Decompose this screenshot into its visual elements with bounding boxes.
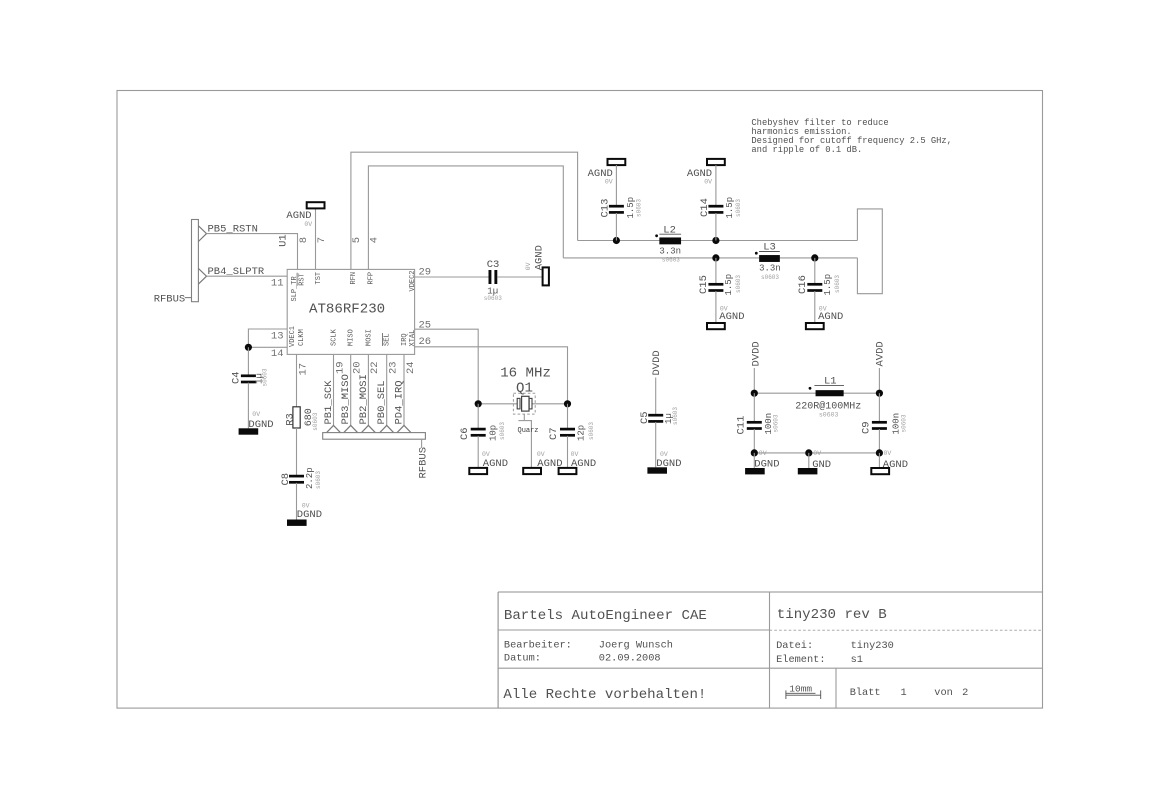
svg-text:IRQ: IRQ bbox=[401, 333, 409, 346]
svg-text:s0603: s0603 bbox=[262, 368, 269, 386]
svg-text:AGND: AGND bbox=[534, 245, 546, 270]
svg-text:s0603: s0603 bbox=[315, 471, 322, 489]
wire PB5_RSTN to pin 8 bbox=[207, 234, 298, 270]
label C13 bbox=[600, 199, 612, 218]
title Alle Rechte vorbehalten! bbox=[503, 687, 706, 703]
junction AVDD node bbox=[876, 390, 883, 397]
label AGND at C13 bbox=[588, 168, 613, 180]
label AGND at C16 bbox=[818, 311, 843, 323]
svg-text:7: 7 bbox=[316, 237, 328, 243]
label C16 bbox=[797, 275, 809, 294]
pin number 4 bbox=[369, 237, 381, 243]
svg-text:Joerg Wunsch: Joerg Wunsch bbox=[599, 639, 673, 651]
net RFBUS label left bbox=[154, 294, 192, 306]
svg-text:CLKM: CLKM bbox=[298, 329, 306, 346]
label C6 bbox=[459, 427, 471, 440]
ground DGND at C8 bbox=[287, 520, 307, 526]
pin number 20 bbox=[352, 361, 364, 374]
wire AGND to C13 bbox=[615, 165, 617, 206]
value C3 1u bbox=[487, 287, 498, 297]
svg-text:PD4_IRQ: PD4_IRQ bbox=[394, 380, 406, 424]
value C6 10p bbox=[489, 425, 499, 441]
wire C16 to AGND bbox=[814, 291, 816, 323]
value C16 1.5p bbox=[823, 274, 833, 296]
svg-text:Datum:: Datum: bbox=[504, 653, 541, 665]
wire pin 22 to bus bbox=[367, 354, 369, 425]
label 0V at GND node bbox=[813, 450, 821, 457]
svg-text:SLP_TR: SLP_TR bbox=[291, 275, 299, 301]
wire pin 25 to crystal left bbox=[415, 329, 479, 404]
svg-text:DGND: DGND bbox=[297, 509, 322, 521]
svg-text:0V: 0V bbox=[759, 450, 767, 457]
svg-text:RST: RST bbox=[298, 273, 306, 286]
svg-text:PB1_SCK: PB1_SCK bbox=[323, 380, 335, 425]
svg-text:20: 20 bbox=[352, 361, 364, 374]
svg-text:0V: 0V bbox=[884, 450, 892, 457]
svg-text:25: 25 bbox=[419, 320, 432, 332]
svg-text:s0603: s0603 bbox=[636, 199, 643, 217]
field Datei bbox=[776, 640, 894, 652]
bus entry triangle PD4_IRQ bbox=[397, 425, 411, 432]
wire AGND to C14 bbox=[715, 165, 717, 206]
value C8 2.2p bbox=[305, 467, 315, 489]
field Blatt bbox=[850, 687, 969, 699]
field Element bbox=[776, 654, 863, 666]
svg-text:12p: 12p bbox=[577, 425, 587, 441]
svg-text:C7: C7 bbox=[548, 427, 560, 440]
svg-text:SEL: SEL bbox=[384, 333, 392, 346]
svg-text:Alle Rechte vorbehalten!: Alle Rechte vorbehalten! bbox=[503, 687, 706, 703]
label C4 bbox=[231, 371, 243, 384]
wire C13 to row 1 bbox=[615, 213, 617, 241]
label 0V at C3 bbox=[525, 262, 532, 270]
label 0V at crystal gnd bbox=[537, 451, 545, 458]
note Chebyshev filter annotation bbox=[751, 118, 952, 155]
wire RFP pin 4 to filter row 2 bbox=[368, 166, 563, 270]
node PB5_RSTN label bbox=[208, 224, 258, 236]
pin label MISO bbox=[348, 329, 356, 346]
resistor R3 bbox=[293, 407, 300, 428]
svg-text:14: 14 bbox=[271, 348, 284, 360]
pin number 19 bbox=[334, 361, 346, 374]
svg-text:AT86RF230: AT86RF230 bbox=[309, 302, 385, 318]
junction GND node bbox=[805, 449, 812, 456]
package L1 s0603 bbox=[819, 411, 839, 418]
pin number 14 bbox=[271, 348, 284, 360]
svg-text:AVDD: AVDD bbox=[875, 341, 887, 366]
label C8 bbox=[280, 473, 292, 486]
svg-text:RFN: RFN bbox=[350, 272, 358, 285]
power DVDD at C11 bbox=[750, 341, 762, 366]
label 0V at C16 bbox=[819, 306, 827, 313]
svg-text:C5: C5 bbox=[639, 411, 651, 424]
node PB4_SLPTR label bbox=[208, 266, 265, 278]
package L2 s0603 bbox=[662, 257, 680, 264]
pin label RST bbox=[297, 273, 306, 286]
pin label MOSI bbox=[365, 329, 373, 346]
package C15 s0603 bbox=[735, 275, 742, 293]
svg-text:PB2_MOSI: PB2_MOSI bbox=[358, 374, 370, 424]
svg-text:s1: s1 bbox=[851, 654, 863, 666]
svg-text:s0603: s0603 bbox=[773, 414, 780, 432]
pin number 25 bbox=[419, 320, 432, 332]
wire C4 to DGND bbox=[247, 383, 249, 429]
svg-text:C4: C4 bbox=[231, 371, 243, 384]
capacitor C4 bbox=[241, 374, 256, 383]
svg-text:s0603: s0603 bbox=[834, 275, 841, 293]
svg-text:PB3_MISO: PB3_MISO bbox=[340, 374, 352, 424]
wire AVDD to L1 node bbox=[878, 368, 880, 393]
svg-text:1.5p: 1.5p bbox=[823, 274, 833, 296]
svg-text:Element:: Element: bbox=[776, 654, 825, 666]
label AGND at C7 bbox=[571, 458, 596, 470]
sheet border frame bbox=[117, 91, 1043, 709]
svg-text:s0603: s0603 bbox=[761, 274, 779, 281]
svg-text:C8: C8 bbox=[280, 473, 292, 486]
label 0V at C13 bbox=[605, 178, 613, 185]
label AGND at C6 bbox=[483, 458, 508, 470]
ground AGND above C14 bbox=[707, 159, 725, 165]
capacitor C13 bbox=[609, 205, 624, 214]
label 0V at C15 bbox=[720, 306, 728, 313]
wire R3 to C8 bbox=[296, 428, 298, 476]
svg-text:2.2p: 2.2p bbox=[305, 467, 315, 489]
label AGND at C14 bbox=[687, 168, 712, 180]
label DGND at C5 bbox=[656, 458, 681, 470]
svg-text:C14: C14 bbox=[699, 198, 711, 217]
title block frame bbox=[498, 592, 1042, 708]
pin number 17 bbox=[297, 363, 309, 376]
package R3 s0603 bbox=[312, 412, 319, 430]
package C16 s0603 bbox=[834, 275, 841, 293]
field Bearbeiter bbox=[504, 639, 673, 651]
svg-text:Bearbeiter:: Bearbeiter: bbox=[504, 639, 572, 651]
label 0V at C6 bbox=[482, 451, 490, 458]
label 0V at C5 bbox=[660, 451, 668, 458]
label Q1 bbox=[516, 380, 533, 396]
svg-text:0V: 0V bbox=[525, 262, 532, 270]
svg-text:3.3n: 3.3n bbox=[759, 264, 781, 274]
pin label XTAL bbox=[409, 330, 417, 347]
wire row 2 to C15 bbox=[715, 258, 717, 284]
net RFBUS label bottom bbox=[417, 447, 429, 479]
pin label IRQ bbox=[401, 333, 409, 346]
label 16 MHz bbox=[500, 366, 551, 382]
label C15 bbox=[698, 275, 710, 294]
junction node C4 bbox=[245, 344, 252, 351]
label 0V top bbox=[304, 221, 312, 228]
svg-text:DVDD: DVDD bbox=[750, 341, 762, 366]
svg-text:Datei:: Datei: bbox=[776, 640, 813, 652]
wire pin 7 to AGND bbox=[315, 209, 317, 270]
value C7 12p bbox=[577, 425, 587, 441]
label AGND at crystal gnd bbox=[537, 458, 562, 470]
wire PB4_SLPTR to pin 11 bbox=[207, 275, 288, 277]
svg-text:SCLK: SCLK bbox=[331, 328, 339, 346]
label C3 bbox=[487, 259, 500, 271]
svg-text:MOSI: MOSI bbox=[365, 329, 373, 346]
wire C9 to gnd row bbox=[878, 429, 880, 453]
wire pin 19 to bus bbox=[333, 354, 335, 425]
svg-text:10p: 10p bbox=[489, 425, 499, 441]
value C14 1.5p bbox=[725, 197, 735, 219]
svg-text:8: 8 bbox=[298, 237, 310, 243]
capacitor C3 bbox=[489, 270, 498, 284]
label C14 bbox=[699, 198, 711, 217]
value L2 3.3n bbox=[659, 247, 681, 257]
pin number 22 bbox=[369, 361, 381, 374]
wire pin 17 to R3 bbox=[296, 354, 298, 406]
wire GND stub bbox=[808, 453, 810, 468]
label DGND at L1 row bbox=[754, 458, 779, 470]
svg-text:0V: 0V bbox=[252, 411, 260, 418]
ground AGND at crystal bbox=[523, 468, 541, 474]
value C15 1.5p bbox=[724, 274, 734, 296]
svg-text:Quarz: Quarz bbox=[518, 427, 539, 435]
svg-text:s0603: s0603 bbox=[672, 407, 679, 425]
svg-text:0V: 0V bbox=[704, 178, 712, 185]
ground AGND at C16 bbox=[806, 323, 824, 329]
svg-text:R3: R3 bbox=[285, 413, 297, 426]
svg-text:MISO: MISO bbox=[348, 329, 356, 346]
pin label RFP bbox=[368, 272, 376, 285]
svg-text:tiny230 rev B: tiny230 rev B bbox=[777, 607, 887, 623]
power DVDD at C5 bbox=[651, 350, 663, 375]
svg-text:0V: 0V bbox=[304, 221, 312, 228]
wire L1 row bbox=[754, 392, 879, 394]
junction crystal left node bbox=[475, 400, 482, 407]
capacitor C16 bbox=[807, 283, 822, 292]
svg-text:s0603: s0603 bbox=[735, 275, 742, 293]
svg-text:PB0_SEL: PB0_SEL bbox=[376, 380, 388, 424]
svg-text:XTAL: XTAL bbox=[409, 330, 417, 347]
label DGND at C8 bbox=[297, 509, 322, 521]
value C11 100n bbox=[764, 413, 774, 435]
ground DGND bar at L1 row bbox=[745, 468, 765, 474]
capacitor C14 bbox=[708, 205, 723, 214]
capacitor C9 bbox=[872, 421, 887, 430]
label AGND at L1 row bbox=[883, 459, 908, 471]
package C5 s0603 bbox=[672, 407, 679, 425]
svg-text:1.5p: 1.5p bbox=[725, 197, 735, 219]
pin label CLKM bbox=[298, 329, 306, 346]
svg-text:VDEC2: VDEC2 bbox=[409, 270, 417, 291]
svg-text:19: 19 bbox=[334, 361, 346, 374]
pin label SLP_TR bbox=[291, 275, 299, 301]
wire node to C9 bbox=[878, 393, 880, 422]
ground AGND at C15 bbox=[707, 323, 725, 329]
ground GND bar at L1 row bbox=[798, 468, 818, 474]
wire node to C6 bbox=[477, 404, 479, 429]
pin label RFN bbox=[350, 272, 358, 285]
wire C8 to DGND bbox=[296, 483, 298, 520]
label GND at L1 row bbox=[812, 459, 831, 471]
capacitor C15 bbox=[708, 283, 723, 292]
ground AGND above C13 bbox=[608, 159, 626, 165]
inductor L2 bbox=[655, 234, 681, 244]
bus entry triangle PB5_RSTN bbox=[198, 226, 206, 242]
wire C3 to AGND bbox=[497, 276, 542, 278]
label AGND at C15 bbox=[719, 311, 744, 323]
package C3 s0603 bbox=[484, 295, 502, 302]
svg-text:0V: 0V bbox=[813, 450, 821, 457]
svg-text:C13: C13 bbox=[600, 199, 612, 218]
label 0V at C8 bbox=[302, 502, 310, 509]
value L3 3.3n bbox=[759, 264, 781, 274]
ground AGND top (pin 7) bbox=[307, 202, 325, 208]
package L3 s0603 bbox=[761, 274, 779, 281]
capacitor C8 bbox=[289, 475, 304, 484]
svg-text:11: 11 bbox=[271, 278, 284, 290]
wire RFN pin 5 to filter row 1 bbox=[351, 152, 578, 269]
capacitor C11 bbox=[747, 421, 762, 430]
wire pin 20 to bus bbox=[350, 354, 352, 425]
svg-text:Q1: Q1 bbox=[516, 380, 533, 396]
label Quarz bbox=[518, 427, 539, 435]
svg-text:DVDD: DVDD bbox=[651, 350, 663, 375]
ground AGND at C7 bbox=[559, 468, 577, 474]
svg-text:and ripple of 0.1 dB.: and ripple of 0.1 dB. bbox=[751, 145, 862, 155]
svg-text:s0603: s0603 bbox=[484, 295, 502, 302]
label 0V at C7 bbox=[571, 451, 579, 458]
svg-text:AGND: AGND bbox=[719, 311, 744, 323]
svg-text:16 MHz: 16 MHz bbox=[500, 366, 551, 382]
connector RFBUS bus bar bbox=[192, 220, 199, 302]
pin number 24 bbox=[405, 361, 417, 374]
wire pin 24 to bus bbox=[403, 354, 405, 425]
ground AGND right of C3 bbox=[543, 267, 549, 285]
capacitor C7 bbox=[560, 428, 575, 437]
label C7 bbox=[548, 427, 560, 440]
bus entry triangle PB1_SCK bbox=[327, 425, 341, 432]
label R3 bbox=[285, 413, 297, 426]
label L2 bbox=[659, 225, 681, 237]
net label PB2_MOSI bbox=[358, 374, 370, 424]
ground DGND at C5 bbox=[647, 467, 667, 473]
svg-text:02.09.2008: 02.09.2008 bbox=[599, 653, 661, 665]
net label PB3_MISO bbox=[340, 374, 352, 424]
wire C15 to AGND bbox=[715, 291, 717, 323]
svg-text:C15: C15 bbox=[698, 275, 710, 294]
power AVDD at C9 bbox=[875, 341, 887, 366]
bus entry triangle PB4_SLPTR bbox=[198, 268, 206, 284]
svg-text:24: 24 bbox=[405, 361, 417, 374]
wire DVDD to L1 node bbox=[753, 368, 755, 393]
pin label VDEC2 bbox=[409, 270, 417, 291]
svg-text:s0603: s0603 bbox=[735, 199, 742, 217]
ground AGND bar at L1 row bbox=[871, 468, 889, 474]
svg-text:1.5p: 1.5p bbox=[724, 274, 734, 296]
bus bar RFBUS bottom bbox=[323, 433, 426, 440]
svg-text:5: 5 bbox=[351, 237, 363, 243]
op-amp U1 AT86RF230 body bbox=[287, 269, 414, 354]
junction AGND node bbox=[876, 449, 883, 456]
svg-text:s0603: s0603 bbox=[819, 411, 839, 418]
wire C5 to DGND bbox=[655, 422, 657, 467]
svg-text:C3: C3 bbox=[487, 259, 500, 271]
svg-text:29: 29 bbox=[419, 267, 432, 279]
svg-text:26: 26 bbox=[419, 336, 432, 348]
wire C14 to row 1 bbox=[715, 213, 717, 241]
junction DVDD node bbox=[751, 390, 758, 397]
junction C13 node bbox=[613, 237, 620, 244]
wire DVDD to C5 bbox=[655, 378, 657, 415]
ic U1 designator bbox=[277, 234, 289, 247]
scale mark 10mm bbox=[786, 684, 821, 699]
wire pin 13 bbox=[248, 329, 287, 347]
label DGND at C4 bbox=[248, 419, 273, 431]
wire crystal case to ground bbox=[518, 414, 532, 468]
svg-text:tiny230: tiny230 bbox=[851, 640, 894, 652]
value C4 1u bbox=[255, 373, 265, 384]
net label PD4_IRQ bbox=[394, 380, 406, 424]
svg-text:VDEC1: VDEC1 bbox=[289, 326, 297, 347]
wire ground row bbox=[754, 452, 879, 454]
svg-text:0V: 0V bbox=[537, 451, 545, 458]
package C6 s0603 bbox=[499, 422, 506, 440]
svg-text:Bartels AutoEngineer CAE: Bartels AutoEngineer CAE bbox=[504, 608, 707, 624]
value C13 1.5p bbox=[626, 197, 636, 219]
wire to C4 bbox=[247, 347, 249, 375]
svg-text:s0603: s0603 bbox=[499, 422, 506, 440]
package C8 s0603 bbox=[315, 471, 322, 489]
junction C15 node bbox=[712, 254, 719, 261]
wire RFBUS stub bbox=[421, 439, 423, 448]
title Bartels AutoEngineer CAE bbox=[504, 608, 707, 624]
svg-text:von: von bbox=[934, 687, 953, 699]
value C9 100n bbox=[892, 413, 902, 435]
value C5 1u bbox=[664, 413, 674, 424]
label 0V at C14 bbox=[704, 178, 712, 185]
svg-text:2: 2 bbox=[962, 687, 968, 699]
svg-text:RFP: RFP bbox=[368, 272, 376, 285]
pin label VDEC1 bbox=[289, 326, 297, 347]
svg-text:0V: 0V bbox=[605, 178, 613, 185]
bus entry triangle PB2_MOSI bbox=[362, 425, 376, 432]
crystal Q1 bbox=[513, 393, 535, 414]
wire C11 to gnd row bbox=[753, 429, 755, 453]
svg-text:RFBUS: RFBUS bbox=[417, 447, 429, 479]
pin label SEL bbox=[383, 333, 392, 346]
svg-text:C9: C9 bbox=[861, 421, 873, 434]
wire pin 14 bbox=[248, 346, 287, 348]
value R3 680 bbox=[304, 408, 315, 426]
svg-text:s0603: s0603 bbox=[312, 412, 319, 430]
svg-text:U1: U1 bbox=[277, 234, 289, 247]
pin number 5 bbox=[351, 237, 363, 243]
bus entry triangle PB0_SEL bbox=[380, 425, 394, 432]
pin number 8 bbox=[298, 237, 310, 243]
wire pin 29 to C3 bbox=[415, 276, 489, 278]
wire crystal left bbox=[478, 403, 517, 405]
junction C16 node bbox=[811, 254, 818, 261]
wire pin 26 to crystal right bbox=[415, 347, 568, 404]
wire node to C11 bbox=[753, 393, 755, 422]
svg-text:13: 13 bbox=[271, 331, 284, 343]
package C11 s0603 bbox=[773, 414, 780, 432]
package C7 s0603 bbox=[588, 422, 595, 440]
title tiny230 rev B bbox=[777, 607, 887, 623]
pin number 29 bbox=[419, 267, 432, 279]
svg-text:AGND: AGND bbox=[818, 311, 843, 323]
svg-text:C11: C11 bbox=[736, 416, 748, 435]
svg-text:3.3n: 3.3n bbox=[659, 247, 681, 257]
label L3 bbox=[759, 242, 780, 254]
junction C14 node bbox=[712, 237, 719, 244]
svg-text:C6: C6 bbox=[459, 427, 471, 440]
package C13 s0603 bbox=[636, 199, 643, 217]
bus entry triangle PB3_MISO bbox=[344, 425, 358, 432]
